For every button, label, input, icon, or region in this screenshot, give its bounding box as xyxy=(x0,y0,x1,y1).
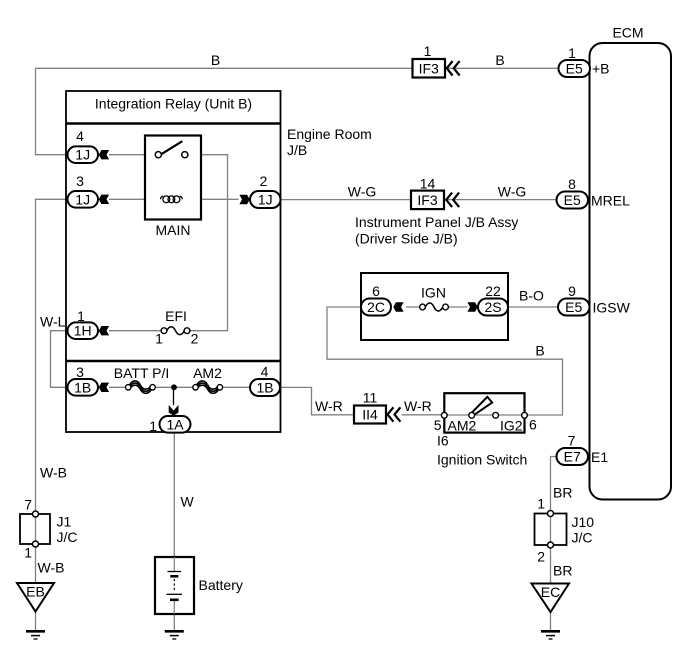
arrow at 1H xyxy=(99,326,109,335)
svg-text:W-G: W-G xyxy=(348,184,377,200)
svg-text:J/B: J/B xyxy=(287,142,307,158)
svg-text:9: 9 xyxy=(568,283,576,299)
ignition switch SW1 box xyxy=(444,393,524,432)
svg-text:5: 5 xyxy=(434,417,442,433)
label B-O xyxy=(519,288,544,304)
svg-text:B-O: B-O xyxy=(519,288,544,304)
pin label 2 xyxy=(260,173,268,189)
label B right xyxy=(495,52,504,68)
connector 1J pin 4 xyxy=(68,146,99,163)
wire pin3 coil run xyxy=(109,198,239,200)
relay coil xyxy=(161,196,183,203)
svg-text:IG2: IG2 xyxy=(500,418,523,434)
svg-text:7: 7 xyxy=(24,497,32,513)
svg-text:2S: 2S xyxy=(484,299,501,315)
arrow at 2C xyxy=(393,302,403,311)
label Engine Room J/B xyxy=(287,126,372,158)
wire EFI fuse to vertical xyxy=(190,330,227,332)
svg-text:1J: 1J xyxy=(75,147,90,163)
wire EC to ground xyxy=(550,612,552,631)
svg-text:AM2: AM2 xyxy=(193,365,222,381)
arrow at 1B pin 3 xyxy=(99,383,109,392)
svg-text:+B: +B xyxy=(592,61,610,77)
wire W-L 1H to 1B xyxy=(51,331,68,388)
relay switch contacts and blade xyxy=(155,141,188,158)
svg-text:7: 7 xyxy=(568,433,576,449)
wire B ignition to 2C xyxy=(327,307,563,415)
label I6 Ignition Switch xyxy=(437,433,527,468)
svg-text:3: 3 xyxy=(76,173,84,189)
label W-B upper xyxy=(40,465,67,481)
connector IF3 pin 14 xyxy=(411,176,444,210)
wire 1H to EFI fuse xyxy=(109,330,161,332)
terminal label AM2 xyxy=(448,418,477,434)
pin label 4 xyxy=(76,128,84,144)
svg-text:AM2: AM2 xyxy=(448,418,477,434)
label B left xyxy=(211,52,220,68)
ground EC triangle xyxy=(532,584,570,613)
svg-text:EFI: EFI xyxy=(165,308,187,324)
wire W-B left vertical down to J1 and EB xyxy=(36,199,68,583)
svg-text:8: 8 xyxy=(568,176,576,192)
svg-text:W-G: W-G xyxy=(498,184,527,200)
svg-text:1B: 1B xyxy=(256,380,273,396)
wire B-O 2S to IGSW xyxy=(508,306,558,308)
svg-text:Battery: Battery xyxy=(199,577,243,593)
svg-text:MREL: MREL xyxy=(591,193,630,209)
connector 2C pin 6 xyxy=(361,283,391,316)
label W-L xyxy=(40,314,66,330)
ignition switch contacts xyxy=(441,412,527,418)
connector II4 pin 11 xyxy=(354,390,386,424)
connector 1A pin 1 xyxy=(160,416,191,433)
wire pin4 arrow to relay contact xyxy=(109,154,155,156)
svg-text:J/C: J/C xyxy=(572,530,593,546)
battery B1 xyxy=(155,557,243,614)
label W-B lower xyxy=(38,560,65,576)
svg-text:6: 6 xyxy=(529,417,537,433)
wire 1B pin4 to II4 xyxy=(280,387,354,414)
connector 1J pin 3 xyxy=(68,191,99,208)
svg-text:22: 22 xyxy=(485,283,501,299)
wire B top run xyxy=(36,67,559,69)
wire junction down to 1A arrow xyxy=(173,387,175,405)
svg-text:W-R: W-R xyxy=(315,398,343,414)
junction J10 J/C xyxy=(535,496,595,565)
svg-text:4: 4 xyxy=(76,128,84,144)
svg-text:E1: E1 xyxy=(591,449,608,465)
svg-text:1: 1 xyxy=(424,43,432,59)
svg-text:ECM: ECM xyxy=(612,25,643,41)
wire II4 to ignition switch xyxy=(402,414,445,416)
arrow at 1J pin 4 xyxy=(99,150,109,159)
svg-text:1B: 1B xyxy=(74,379,91,395)
wire BATT fuse to AM2 fuse xyxy=(156,386,193,388)
svg-text:IGSW: IGSW xyxy=(593,300,631,316)
arrow down to 1A xyxy=(169,405,179,416)
svg-text:1: 1 xyxy=(77,308,85,324)
svg-text:B: B xyxy=(535,343,544,359)
wire E7 to J10 to EC xyxy=(551,457,557,584)
ground symbol EC xyxy=(541,631,560,639)
svg-text:2C: 2C xyxy=(367,299,385,315)
svg-text:J/C: J/C xyxy=(57,529,78,545)
wire IGN fuse to 2S arrow xyxy=(449,306,468,308)
svg-text:MAIN: MAIN xyxy=(156,222,191,238)
svg-text:(Driver Side J/B): (Driver Side J/B) xyxy=(355,231,458,247)
connector 2S pin 22 xyxy=(478,283,508,316)
connector E5 pin 1 +B xyxy=(559,45,610,77)
svg-text:2: 2 xyxy=(260,173,268,189)
svg-text:BR: BR xyxy=(553,485,572,501)
svg-text:EB: EB xyxy=(26,584,45,600)
svg-text:W-R: W-R xyxy=(404,398,432,414)
connector E7 pin 7 E1 xyxy=(557,433,609,466)
svg-text:E5: E5 xyxy=(564,192,581,208)
svg-text:B: B xyxy=(211,52,220,68)
svg-text:B: B xyxy=(495,52,504,68)
svg-text:IGN: IGN xyxy=(421,285,446,301)
svg-text:BATT P/I: BATT P/I xyxy=(114,365,170,381)
chevrons II4 xyxy=(388,407,401,421)
svg-text:4: 4 xyxy=(261,364,269,380)
svg-text:1: 1 xyxy=(149,418,157,434)
svg-text:E7: E7 xyxy=(564,449,581,465)
svg-text:3: 3 xyxy=(76,364,84,380)
svg-text:E5: E5 xyxy=(565,299,582,315)
ground EB triangle xyxy=(17,583,54,612)
ground symbol EB xyxy=(26,631,45,639)
pin label 3 xyxy=(76,364,84,380)
svg-text:I6: I6 xyxy=(437,433,449,449)
wire 2C arrow to IGN fuse xyxy=(406,306,419,308)
wire W-G MREL run xyxy=(281,199,557,201)
pin label 1 xyxy=(149,418,157,434)
arrow at 1J pin 3 xyxy=(99,195,109,204)
svg-text:Engine Room: Engine Room xyxy=(287,126,372,142)
svg-text:1: 1 xyxy=(24,545,32,561)
node junction dot xyxy=(171,384,177,390)
svg-text:Integration Relay (Unit B): Integration Relay (Unit B) xyxy=(95,96,252,112)
wire AM2 fuse to 1B pin4 xyxy=(223,386,250,388)
arrow at 1J pin 2 xyxy=(239,195,249,204)
pin label 6 xyxy=(529,417,537,433)
svg-text:2: 2 xyxy=(537,549,545,565)
pin label 1 xyxy=(77,308,85,324)
connector IF3 pin 1 xyxy=(413,43,446,78)
svg-text:W-B: W-B xyxy=(38,560,65,576)
relay MAIN box xyxy=(145,136,201,239)
wire relay contact to EFI vertical xyxy=(188,155,228,331)
svg-text:Ignition Switch: Ignition Switch xyxy=(437,452,527,468)
fuse AM2 xyxy=(193,365,223,393)
terminal label IG2 xyxy=(500,418,523,434)
connector E5 pin 8 MREL xyxy=(557,176,631,209)
fuse IGN xyxy=(420,285,449,311)
svg-text:2: 2 xyxy=(191,331,199,347)
svg-text:6: 6 xyxy=(372,283,380,299)
wire left vertical from B to 1J pin 4 xyxy=(36,68,68,154)
svg-text:11: 11 xyxy=(363,390,378,406)
connector 1J pin 2 xyxy=(250,191,281,208)
connector 1B pin 3 xyxy=(68,379,99,396)
junction J1 J/C xyxy=(20,497,78,561)
chevrons IF3 top xyxy=(447,61,460,75)
svg-text:II4: II4 xyxy=(362,407,378,423)
wire W battery xyxy=(173,433,175,557)
ECM box U1 xyxy=(590,25,672,500)
pin label 5 xyxy=(434,417,442,433)
label BR upper xyxy=(553,485,572,501)
wire EB to ground xyxy=(35,612,37,631)
connector E5 pin 9 IGSW xyxy=(558,283,631,316)
wire battery to ground xyxy=(173,614,175,631)
svg-text:W-L: W-L xyxy=(40,314,66,330)
connector 1B pin 4 xyxy=(250,379,280,396)
box Instrument panel J/B IGN section xyxy=(361,273,508,340)
svg-text:IF3: IF3 xyxy=(417,192,437,208)
svg-text:W-B: W-B xyxy=(40,465,67,481)
wire 1B arrow to BATT fuse xyxy=(109,386,126,388)
label W xyxy=(181,494,195,510)
svg-text:J10: J10 xyxy=(572,514,595,530)
svg-text:Instrument Panel J/B Assy: Instrument Panel J/B Assy xyxy=(355,214,518,230)
ignition switch lever xyxy=(472,397,492,415)
label W-R right xyxy=(404,398,432,414)
label W-G left xyxy=(348,184,377,200)
fuse BATT P/I xyxy=(114,365,170,393)
svg-text:1J: 1J xyxy=(258,192,273,208)
svg-text:1A: 1A xyxy=(166,416,184,432)
svg-text:W: W xyxy=(181,494,195,510)
svg-text:1H: 1H xyxy=(74,323,92,339)
svg-text:14: 14 xyxy=(420,176,436,192)
fuse EFI xyxy=(155,308,199,347)
svg-text:EC: EC xyxy=(541,584,560,600)
chevrons IF3 lower xyxy=(446,193,459,207)
label BR lower xyxy=(553,563,572,579)
svg-text:J1: J1 xyxy=(57,514,72,530)
label W-R left xyxy=(315,398,343,414)
pin label 3 xyxy=(76,173,84,189)
pin label 4 xyxy=(261,364,269,380)
label Instrument Panel J/B Assy xyxy=(355,214,518,247)
relay box Integration Relay (Unit B) xyxy=(66,91,281,432)
connector 1H pin 1 xyxy=(68,322,99,339)
svg-text:1: 1 xyxy=(568,45,576,61)
ground symbol battery xyxy=(165,631,184,639)
wire inside ignition switch xyxy=(445,414,525,416)
label W-G right xyxy=(498,184,527,200)
svg-text:1: 1 xyxy=(155,331,163,347)
svg-text:IF3: IF3 xyxy=(419,60,439,76)
svg-text:1: 1 xyxy=(537,496,545,512)
label B ignition xyxy=(535,343,544,359)
svg-text:BR: BR xyxy=(553,563,572,579)
arrow at 2S xyxy=(467,302,477,311)
svg-text:1J: 1J xyxy=(75,191,90,207)
svg-text:E5: E5 xyxy=(566,61,583,77)
